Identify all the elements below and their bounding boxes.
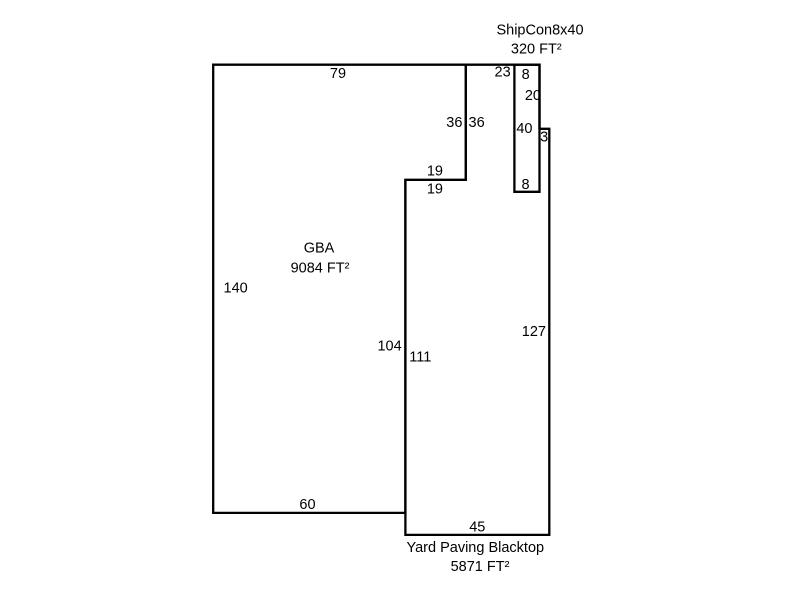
svg-text:40: 40 [516,121,532,137]
svg-text:320 FT²: 320 FT² [511,41,562,57]
svg-text:60: 60 [299,497,315,513]
svg-text:9084 FT²: 9084 FT² [291,260,350,276]
svg-text:ShipCon8x40: ShipCon8x40 [496,23,583,39]
svg-text:79: 79 [330,66,346,82]
svg-text:36: 36 [446,115,462,131]
shipping container ShipCon8x40 outline [514,65,539,192]
svg-text:111: 111 [409,350,431,366]
svg-text:5871 FT²: 5871 FT² [451,559,510,575]
svg-text:19: 19 [427,164,443,180]
yard paving blacktop outline [405,65,549,535]
GBA building outline [213,65,466,513]
svg-text:23: 23 [495,64,511,80]
svg-text:20: 20 [525,88,541,104]
svg-text:36: 36 [469,115,485,131]
svg-text:3: 3 [540,129,548,145]
svg-text:19: 19 [427,182,443,198]
svg-text:Yard Paving Blacktop: Yard Paving Blacktop [407,540,545,556]
svg-text:127: 127 [522,324,546,340]
svg-text:8: 8 [522,67,530,83]
svg-text:104: 104 [377,339,401,355]
svg-text:8: 8 [521,177,529,193]
svg-text:GBA: GBA [304,240,335,256]
svg-text:140: 140 [224,281,248,297]
svg-text:45: 45 [469,519,485,535]
